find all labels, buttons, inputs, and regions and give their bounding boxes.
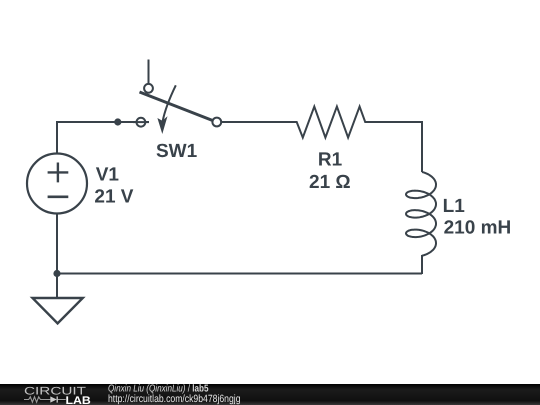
- switch SW1 right terminal: [212, 118, 221, 127]
- CircuitLab logo diode: [50, 396, 57, 402]
- wire switch right to resistor to top-right corner: [222, 107, 423, 173]
- svg-text:SW1: SW1: [156, 141, 198, 162]
- switch SW1 top terminal: [144, 84, 153, 93]
- V1 minus sign: [48, 196, 69, 199]
- CircuitLab logo squiggle wire: [24, 397, 66, 402]
- footer bar: [0, 384, 540, 405]
- voltage source V1: [27, 154, 87, 214]
- V1 plus sign: [48, 163, 69, 183]
- svg-text:L1: L1: [443, 196, 466, 217]
- svg-text:http://circuitlab.com/ck9b478j: http://circuitlab.com/ck9b478j6ngjg: [108, 393, 241, 405]
- wire switch top stub: [148, 60, 150, 84]
- wire inductor bottom lead: [421, 255, 423, 274]
- node junction dot ground: [53, 270, 60, 277]
- ground: [33, 298, 83, 323]
- svg-text:R1: R1: [318, 149, 343, 170]
- switch SW1 arrowhead: [157, 116, 167, 134]
- inductor L1 coil: [406, 172, 436, 256]
- wire V1 bottom lead: [56, 213, 58, 274]
- svg-text:210 mH: 210 mH: [444, 217, 512, 238]
- switch SW1 blade: [140, 92, 213, 120]
- svg-text:21 V: 21 V: [94, 186, 133, 207]
- wire bottom horizontal: [56, 273, 422, 275]
- wire left vertical V1 top lead: [56, 121, 58, 154]
- svg-text:LAB: LAB: [66, 395, 91, 405]
- wire ground stub: [56, 274, 58, 299]
- wire top-left horizontal from node A to switch left terminal: [57, 121, 149, 123]
- switch SW1 actuation arrow arc: [163, 85, 176, 121]
- wire through left terminal: [133, 121, 149, 123]
- svg-text:V1: V1: [96, 165, 120, 186]
- switch SW1 left terminal: [137, 118, 146, 127]
- node junction dot left: [114, 118, 121, 125]
- svg-text:21 Ω: 21 Ω: [309, 172, 351, 193]
